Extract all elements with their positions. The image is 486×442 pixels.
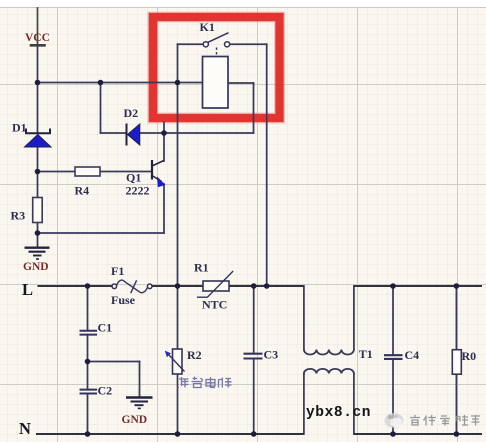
svg-text:NTC: NTC <box>202 298 227 312</box>
svg-text:2222: 2222 <box>126 184 150 198</box>
svg-text:F1: F1 <box>111 264 124 278</box>
svg-text:C2: C2 <box>98 384 113 398</box>
svg-text:L: L <box>22 280 33 299</box>
svg-text:VCC: VCC <box>25 32 50 44</box>
svg-text:C4: C4 <box>405 348 420 362</box>
svg-text:C1: C1 <box>98 321 113 335</box>
svg-text:GND: GND <box>23 261 49 273</box>
svg-text:D2: D2 <box>124 106 139 120</box>
svg-text:T1: T1 <box>359 347 373 361</box>
svg-text:R1: R1 <box>194 261 209 275</box>
svg-text:R0: R0 <box>462 349 477 363</box>
svg-text:R4: R4 <box>75 184 90 198</box>
svg-text:Fuse: Fuse <box>111 293 136 307</box>
svg-text:N: N <box>19 419 31 438</box>
svg-text:D1: D1 <box>12 121 27 135</box>
svg-text:Q1: Q1 <box>126 171 141 185</box>
svg-text:GND: GND <box>122 414 148 426</box>
svg-text:R3: R3 <box>11 209 26 223</box>
svg-text:K1: K1 <box>200 20 215 34</box>
svg-text:R2: R2 <box>187 348 202 362</box>
svg-text:ybx8.cn: ybx8.cn <box>306 405 371 421</box>
svg-text:C3: C3 <box>264 348 279 362</box>
